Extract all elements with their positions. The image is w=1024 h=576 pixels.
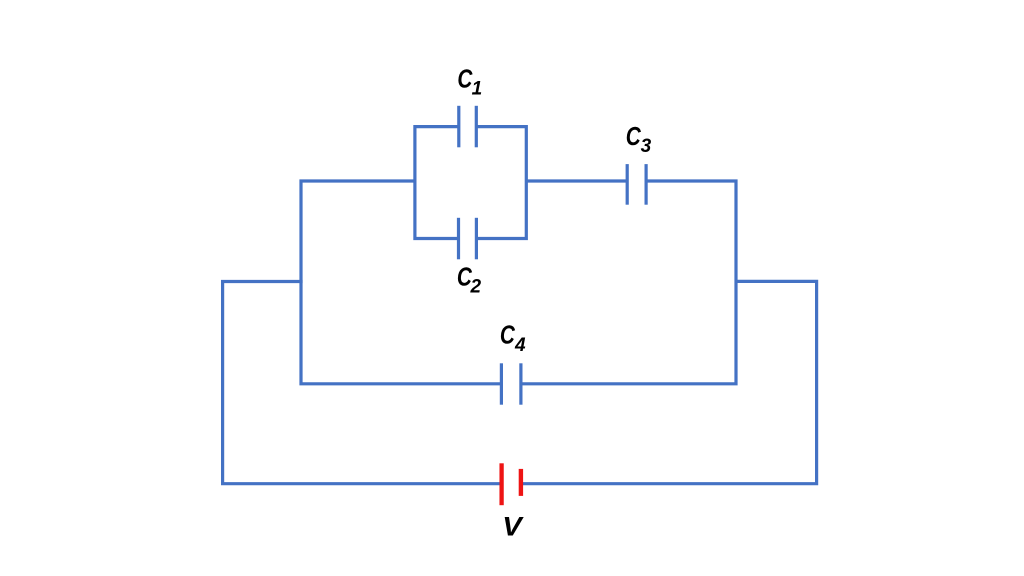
wire: outer loop left (junction at node A down and along bottom to battery): [223, 282, 500, 484]
capacitor C3 right plate: [644, 164, 647, 205]
svg-text:3: 3: [641, 136, 652, 157]
wire: outer loop right (junction at node B down to bottom and left to battery): [523, 281, 817, 483]
battery V left plate (long): [499, 463, 503, 505]
svg-text:2: 2: [470, 277, 482, 298]
label C3: [626, 122, 652, 157]
capacitor C2 left plate: [457, 218, 460, 259]
label C2: [457, 262, 482, 297]
capacitor C4 right plate: [519, 363, 522, 404]
wire: inner loop right (from C3 to node B vertical, bottom to C4): [521, 181, 736, 384]
wire: parallel block right bracket: [476, 127, 526, 239]
label C1: [457, 64, 482, 99]
wire: parallel block left bracket: [415, 127, 459, 239]
capacitor C2 right plate: [475, 218, 478, 259]
capacitor C3 left plate: [626, 164, 629, 205]
label C4: [500, 320, 526, 356]
wire: middle segment between parallel block and C3: [526, 179, 627, 182]
svg-text:V: V: [502, 511, 524, 541]
svg-text:C: C: [500, 320, 516, 349]
svg-text:4: 4: [514, 335, 526, 356]
battery V right plate (short): [519, 469, 523, 496]
capacitor C1 left plate: [457, 106, 460, 148]
wire: inner loop left (node A, left vertical, bottom to C4): [301, 181, 501, 384]
capacitor C1 right plate: [475, 106, 478, 148]
svg-text:C: C: [626, 122, 642, 151]
svg-text:1: 1: [472, 79, 483, 100]
capacitor C4 left plate: [500, 363, 503, 404]
label V: [502, 511, 524, 541]
